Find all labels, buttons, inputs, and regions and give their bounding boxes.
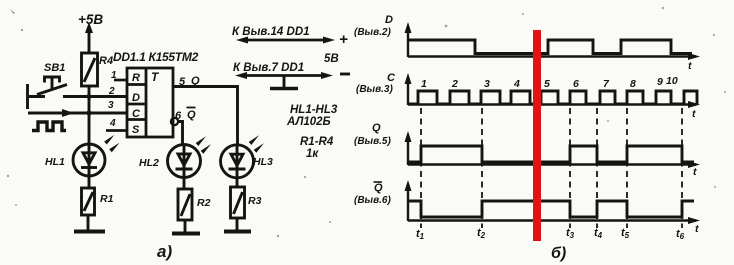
wire R4 bottom to HL1 bbox=[88, 97, 91, 144]
t label D axis bbox=[688, 60, 692, 72]
t label Q-bar axis bbox=[695, 223, 699, 235]
svg-text:б): б) bbox=[551, 245, 566, 262]
axis Q-bar bbox=[405, 180, 701, 224]
svg-text:R1: R1 bbox=[100, 193, 114, 205]
label 5V bbox=[324, 53, 339, 65]
label C (Vyv.3) bbox=[356, 72, 396, 95]
label HL3 bbox=[253, 156, 273, 168]
label R4 bbox=[99, 55, 113, 67]
svg-text:(Выв.3): (Выв.3) bbox=[356, 84, 393, 95]
pin 6 inversion circle bbox=[171, 118, 178, 125]
wire HL2 to R2 bbox=[183, 178, 186, 189]
power arrow up bbox=[85, 22, 93, 53]
label K Vyv.7 DD1 bbox=[233, 62, 304, 74]
svg-text:DD1.1 К155ТМ2: DD1.1 К155ТМ2 bbox=[113, 50, 199, 64]
svg-text:9: 9 bbox=[657, 76, 663, 88]
svg-text:C: C bbox=[132, 108, 141, 120]
LED HL1 emission arrows bbox=[104, 135, 119, 153]
power +5V label bbox=[78, 12, 103, 27]
svg-text:S: S bbox=[132, 124, 140, 136]
dashed line t6 bbox=[681, 108, 683, 228]
svg-text:К Выв.7 DD1: К Выв.7 DD1 bbox=[233, 62, 304, 74]
svg-text:4: 4 bbox=[513, 78, 520, 90]
svg-text:4: 4 bbox=[109, 118, 116, 129]
minus sign bbox=[340, 73, 350, 76]
clock pulse numbers 1-10 bbox=[421, 75, 678, 90]
svg-text:5: 5 bbox=[544, 78, 550, 90]
time labels t1-t6 bbox=[416, 227, 685, 241]
svg-text:HL1: HL1 bbox=[45, 156, 65, 168]
wire to pin14 double arrow bbox=[236, 37, 335, 44]
svg-text:1: 1 bbox=[421, 78, 427, 90]
label R3 bbox=[248, 195, 262, 207]
t label C axis bbox=[692, 108, 696, 120]
svg-text:а): а) bbox=[157, 242, 172, 261]
svg-text:5: 5 bbox=[179, 76, 186, 88]
LED HL1 bbox=[73, 144, 105, 176]
switch SB1 bbox=[27, 77, 67, 109]
wire Q pin5 to HL3 bbox=[173, 87, 238, 147]
svg-text:HL3: HL3 bbox=[253, 156, 273, 168]
svg-text:D: D bbox=[132, 92, 140, 104]
wire D line to pin 2 bbox=[63, 95, 127, 98]
wire HL3 to R3 bbox=[236, 178, 239, 187]
ground under R1 bbox=[74, 215, 105, 232]
waveform Q bbox=[409, 146, 694, 162]
LED HL2 bbox=[168, 145, 201, 179]
svg-text:t: t bbox=[695, 223, 699, 235]
label AL102B bbox=[286, 116, 331, 128]
svg-text:t: t bbox=[688, 60, 692, 72]
resistor R1 bbox=[82, 188, 95, 215]
svg-text:HL1-HL3: HL1-HL3 bbox=[290, 104, 338, 116]
red cursor line bbox=[533, 30, 541, 241]
svg-text:Q: Q bbox=[372, 122, 381, 134]
wire C line to pin 3 with arrow bbox=[28, 109, 127, 117]
clock pulse icon bbox=[32, 122, 66, 131]
axis C bbox=[405, 73, 701, 108]
junction dot R4/D-line bbox=[86, 94, 91, 99]
svg-text:2: 2 bbox=[451, 78, 458, 90]
wire HL1 to R1 bbox=[88, 176, 91, 188]
svg-text:(Выв.6): (Выв.6) bbox=[354, 195, 391, 206]
label Q (Vyv.5) bbox=[354, 122, 391, 147]
svg-text:6: 6 bbox=[573, 78, 579, 90]
label b) bbox=[551, 245, 566, 262]
switch SB1 label bbox=[44, 62, 65, 74]
svg-text:5В: 5В bbox=[324, 53, 339, 65]
svg-text:t: t bbox=[692, 108, 696, 120]
svg-text:R2: R2 bbox=[197, 197, 211, 209]
pin 1 stub bbox=[114, 79, 127, 82]
label Q-bar (Vyv.6) bbox=[354, 182, 391, 206]
pin 2 number bbox=[108, 86, 115, 97]
svg-text:+: + bbox=[339, 31, 348, 48]
label R1 bbox=[100, 193, 114, 205]
wire Q-bar pin6 to HL2 bbox=[178, 122, 183, 146]
svg-text:t: t bbox=[693, 166, 697, 178]
pin 4 number bbox=[109, 118, 116, 129]
label 1k bbox=[306, 148, 319, 160]
svg-text:К Выв.14 DD1: К Выв.14 DD1 bbox=[232, 26, 310, 38]
label K Vyv.14 DD1 bbox=[232, 26, 310, 38]
svg-text:(Выв.5): (Выв.5) bbox=[354, 136, 391, 147]
wire to pin7 double arrow bbox=[235, 72, 333, 79]
LED HL3 bbox=[221, 145, 254, 178]
label R2 bbox=[197, 197, 211, 209]
dashed line t2 bbox=[481, 108, 483, 228]
label R1-R4 bbox=[300, 136, 334, 148]
axis D bbox=[405, 22, 701, 60]
ground under R2 bbox=[172, 220, 200, 234]
pin 5 Q label bbox=[179, 75, 200, 88]
waveform D bbox=[409, 40, 692, 54]
ground under R3 bbox=[224, 218, 251, 232]
waveform C clock pulses bbox=[409, 91, 697, 104]
flip-flop DD1.1 body bbox=[127, 68, 173, 137]
label HL2 bbox=[139, 157, 159, 169]
svg-text:SB1: SB1 bbox=[44, 62, 65, 74]
label D (Vyv.2) bbox=[354, 14, 393, 38]
resistor R2 bbox=[178, 189, 192, 220]
LED HL3 emission arrows bbox=[249, 135, 264, 153]
svg-text:R3: R3 bbox=[248, 195, 262, 207]
label DD1.1 K155TM2 bbox=[113, 50, 199, 64]
pin 1 number bbox=[111, 70, 117, 81]
svg-text:Q: Q bbox=[191, 75, 200, 87]
svg-text:2: 2 bbox=[108, 86, 115, 97]
dashed line t1 bbox=[420, 108, 422, 228]
pin 4 stub bbox=[106, 129, 127, 132]
plus sign bbox=[339, 31, 348, 48]
svg-text:10: 10 bbox=[666, 75, 678, 87]
svg-text:АЛ102Б: АЛ102Б bbox=[286, 116, 331, 128]
t label Q axis bbox=[693, 166, 697, 178]
svg-text:R1-R4: R1-R4 bbox=[300, 136, 334, 148]
common rail symbol bbox=[270, 76, 298, 89]
svg-text:8: 8 bbox=[630, 78, 636, 90]
pin 3 number bbox=[108, 100, 114, 111]
resistor R4 bbox=[82, 53, 98, 97]
svg-text:R: R bbox=[132, 72, 140, 84]
label HL1 bbox=[45, 156, 65, 168]
junction dot C-line bbox=[86, 110, 91, 115]
svg-text:Q: Q bbox=[187, 109, 196, 121]
svg-text:(Выв.2): (Выв.2) bbox=[354, 27, 391, 38]
label HL1-HL3 bbox=[290, 104, 338, 116]
svg-text:1: 1 bbox=[111, 70, 117, 81]
dashed line t3 bbox=[569, 108, 571, 228]
svg-text:Q: Q bbox=[374, 182, 383, 194]
flip-flop section labels R D C S T bbox=[132, 70, 160, 136]
svg-text:6: 6 bbox=[175, 110, 182, 122]
waveform Q-bar bbox=[409, 201, 694, 217]
label a) bbox=[157, 242, 172, 261]
dashed line t5 bbox=[626, 108, 628, 228]
resistor R3 bbox=[231, 187, 245, 218]
axis Q bbox=[405, 131, 701, 168]
pin 6 Q-bar label bbox=[175, 108, 196, 123]
LED HL2 emission arrows bbox=[196, 136, 211, 154]
svg-text:C: C bbox=[387, 72, 396, 84]
svg-text:D: D bbox=[385, 14, 393, 26]
svg-text:3: 3 bbox=[484, 78, 490, 90]
svg-text:1к: 1к bbox=[306, 148, 319, 160]
svg-text:R4: R4 bbox=[99, 55, 113, 67]
dashed line t4 bbox=[596, 108, 598, 228]
svg-text:+5В: +5В bbox=[78, 12, 103, 27]
svg-text:HL2: HL2 bbox=[139, 157, 159, 169]
svg-text:3: 3 bbox=[108, 100, 114, 111]
